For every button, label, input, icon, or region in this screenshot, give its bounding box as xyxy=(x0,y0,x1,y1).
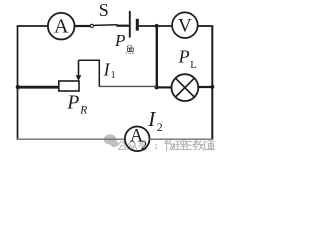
wire junction down to node xyxy=(156,26,158,87)
svg-text:P: P xyxy=(178,46,190,66)
bottom wire left xyxy=(17,138,125,140)
left junction node xyxy=(16,85,20,89)
right rail wire xyxy=(211,25,213,139)
top-left wire xyxy=(17,25,48,27)
bottom wire right xyxy=(150,138,213,140)
svg-text:R: R xyxy=(79,104,87,116)
junction node right xyxy=(210,85,214,89)
wire V to right rail xyxy=(198,25,212,27)
ammeter A2 xyxy=(125,127,150,152)
rheostat slider arrow xyxy=(78,60,80,76)
svg-text:S: S xyxy=(99,0,109,20)
switch S pivot xyxy=(90,24,93,27)
watermark text 公众号：物理E教通 xyxy=(118,140,214,150)
svg-text:2: 2 xyxy=(157,120,163,134)
wire slider bump xyxy=(79,60,100,86)
svg-text:P: P xyxy=(66,92,79,113)
svg-text:V: V xyxy=(178,16,192,37)
wire switch to battery xyxy=(117,25,130,27)
watermark logo xyxy=(104,134,118,147)
svg-text:A: A xyxy=(54,16,69,38)
switch blade xyxy=(94,24,118,27)
svg-text:2: 2 xyxy=(141,138,147,152)
svg-text:P: P xyxy=(114,31,125,50)
lamp L xyxy=(172,74,199,101)
wire A to switch xyxy=(75,25,91,27)
svg-text:1: 1 xyxy=(111,70,116,81)
voltmeter V xyxy=(172,12,198,38)
left rail wire xyxy=(17,26,19,139)
wire bump to node xyxy=(99,85,157,87)
thick wire to rheostat xyxy=(18,86,59,89)
battery long plate xyxy=(129,11,131,38)
battery short plate xyxy=(136,19,139,31)
rheostat R box xyxy=(59,81,79,91)
wire battery to junction to voltmeter xyxy=(139,25,172,27)
svg-text:L: L xyxy=(190,60,196,71)
svg-text:I: I xyxy=(147,107,156,131)
wire lamp to right rail xyxy=(198,86,212,88)
svg-text:I: I xyxy=(103,59,111,79)
middle junction node xyxy=(154,85,158,89)
junction node top xyxy=(155,24,159,28)
ammeter A1 xyxy=(48,13,75,40)
wire node to lamp xyxy=(157,86,172,88)
